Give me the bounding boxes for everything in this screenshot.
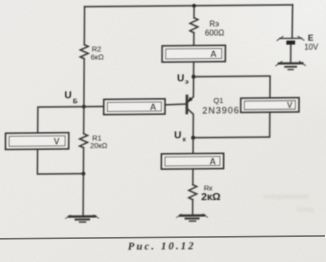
resistor Re	[190, 18, 198, 33]
ground middle	[177, 214, 208, 221]
ground left	[66, 215, 99, 222]
resistor R2	[80, 45, 88, 59]
wire: UB to ammeter A2	[84, 105, 104, 107]
wire	[192, 169, 194, 185]
node UB junction	[82, 105, 86, 109]
wire: right loop top	[193, 76, 270, 99]
wire: UB to voltmeter V1	[38, 107, 84, 133]
transistor Q1	[187, 77, 194, 138]
wire	[193, 62, 195, 77]
bottom rule	[0, 236, 325, 239]
wire	[193, 33, 195, 46]
wire: middle top branch	[193, 6, 195, 18]
battery E	[277, 36, 304, 44]
ground battery	[276, 61, 306, 69]
node Ue junction	[192, 75, 196, 79]
wire	[82, 174, 84, 216]
wire	[192, 200, 194, 215]
wire	[83, 107, 85, 134]
wire: V1 down and to node	[37, 149, 83, 174]
wire: A2 to base	[165, 103, 186, 106]
voltmeter V1	[6, 133, 69, 150]
ammeter A3 (collector)	[161, 153, 223, 169]
wire: right loop bottom	[193, 112, 270, 138]
wire: battery branch	[291, 5, 293, 37]
node Uk junction	[191, 136, 195, 140]
voltmeter V2	[241, 98, 299, 113]
wire	[290, 45, 292, 62]
ammeter A2 (base)	[104, 99, 165, 115]
wire	[83, 59, 85, 107]
wire	[192, 138, 194, 154]
resistor R1	[80, 134, 88, 148]
node top junction	[192, 4, 196, 8]
ghost bleed-through text	[263, 191, 314, 214]
wire: left branch upper	[83, 7, 85, 45]
node junction	[81, 172, 85, 176]
wire: top rail	[85, 5, 293, 7]
wire	[82, 148, 84, 174]
ammeter A1 (emitter top)	[162, 45, 225, 62]
resistor Rk	[189, 185, 197, 200]
